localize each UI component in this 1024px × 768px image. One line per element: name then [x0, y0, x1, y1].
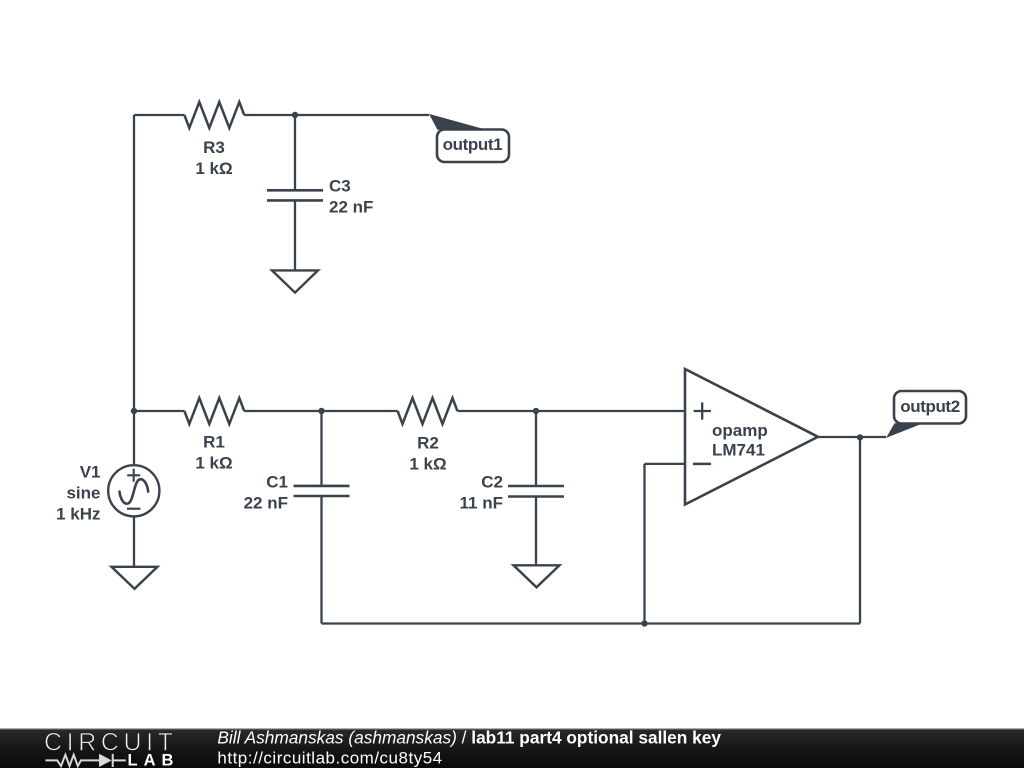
svg-text:22 nF: 22 nF [244, 494, 288, 513]
svg-text:C3: C3 [329, 177, 351, 196]
op-amp plus input pin mark [694, 402, 711, 419]
V1 minus sign [127, 508, 140, 510]
label C3 value 22 nF [329, 177, 373, 217]
capacitor C1 [294, 486, 350, 496]
logo CIRCUIT wordmark [44, 729, 178, 757]
label output1 [443, 135, 503, 154]
voltage source V1 circle [108, 465, 159, 516]
label R1 value 1 kΩ [195, 433, 232, 473]
node D junction dot rail/C2 [533, 408, 539, 414]
wire feedback bottom rail [322, 622, 861, 624]
ground under C2 [514, 565, 560, 587]
node C junction dot rail/C1 [318, 408, 324, 414]
wire feedback riser from minus input [643, 464, 645, 624]
wire opamp output [818, 436, 886, 438]
svg-text:http://circuitlab.com/cu8ty54: http://circuitlab.com/cu8ty54 [217, 748, 442, 767]
label C2 value 11 nF [460, 473, 503, 513]
capacitor C2 [508, 486, 564, 497]
svg-text:C1: C1 [266, 473, 288, 492]
ground under V1 [112, 567, 158, 589]
svg-text:LM741: LM741 [712, 441, 765, 460]
footer credit line author and title [217, 728, 721, 748]
output1 flag pointer [429, 114, 487, 130]
resistor R3 [184, 102, 244, 128]
output2 flag box [894, 391, 966, 424]
wire C1 bottom lead to feedback rail [320, 496, 322, 624]
logo LAB wordmark [128, 752, 180, 768]
footer url line [217, 748, 442, 767]
svg-text:1 kΩ: 1 kΩ [195, 159, 232, 178]
logo diode triangle [99, 754, 112, 767]
op-amp minus input pin mark [693, 463, 711, 466]
op-amp U1 triangle [685, 369, 818, 505]
node F junction dot feedback rail [641, 620, 647, 626]
wire opamp minus input lead [645, 463, 686, 465]
resistor R1 [184, 398, 244, 424]
capacitor C3 [267, 190, 323, 200]
wire main rail segments V1 to opamp [134, 410, 685, 412]
wire C2 top lead [535, 411, 537, 486]
node E junction dot output [857, 434, 863, 440]
node A junction dot top rail/C3 [292, 112, 298, 118]
output2 flag pointer [886, 423, 923, 438]
label V1 sine 1 kHz [56, 463, 100, 524]
resistor R2 [398, 398, 458, 424]
wire C2 bottom lead [535, 497, 537, 566]
footer bar [0, 728, 1024, 768]
svg-text:V1: V1 [80, 463, 101, 482]
wire V1 bottom lead [133, 516, 135, 567]
svg-text:R1: R1 [203, 433, 225, 452]
svg-text:1 kΩ: 1 kΩ [409, 455, 446, 474]
logo resistor-diode glyph [46, 754, 126, 767]
wire left riser x=134 from top rail down to V1 [133, 115, 135, 464]
wire C3 bottom lead [294, 200, 296, 270]
V1 plus sign [127, 469, 140, 482]
wire output riser down [859, 437, 861, 623]
svg-text:R3: R3 [203, 138, 225, 157]
label R2 value 1 kΩ [409, 434, 446, 474]
label R3 value 1 kΩ [195, 138, 232, 178]
V1 sine squiggle [120, 479, 149, 504]
svg-text:output2: output2 [900, 397, 960, 416]
svg-text:22 nF: 22 nF [329, 198, 373, 217]
wire top rail from left riser through R3 node to output1 flag [134, 114, 429, 116]
label output2 [900, 397, 960, 416]
svg-text:C2: C2 [481, 473, 503, 492]
ground under C3 [272, 270, 318, 292]
node B junction dot main rail/V1 [131, 408, 137, 414]
svg-text:1 kΩ: 1 kΩ [195, 454, 232, 473]
wire C3 top lead [294, 115, 296, 190]
svg-text:LAB: LAB [128, 752, 180, 768]
svg-text:sine: sine [66, 484, 100, 503]
svg-text:output1: output1 [443, 135, 503, 154]
svg-text:R2: R2 [417, 434, 439, 453]
svg-text:11 nF: 11 nF [460, 494, 503, 513]
svg-text:1 kHz: 1 kHz [56, 505, 100, 524]
output1 flag box [437, 130, 509, 163]
wire C1 top lead [320, 411, 322, 486]
svg-text:Bill Ashmanskas (ashmanskas) /: Bill Ashmanskas (ashmanskas) / lab11 par… [217, 728, 721, 748]
label C1 value 22 nF [244, 473, 288, 513]
svg-text:opamp: opamp [712, 421, 768, 440]
label opamp LM741 [712, 421, 768, 460]
